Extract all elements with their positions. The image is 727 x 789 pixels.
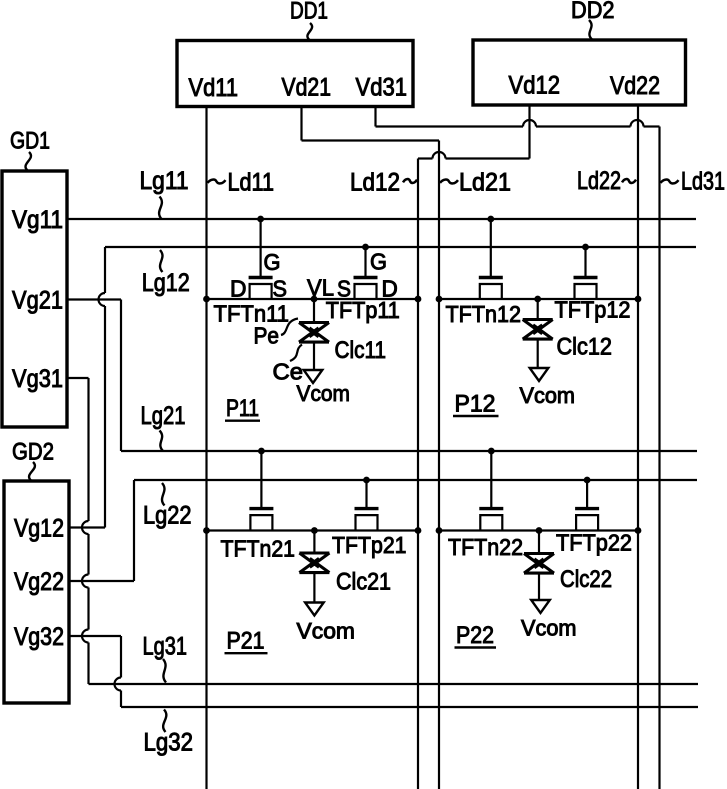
svg-text:Vg22: Vg22 (14, 568, 64, 596)
svg-text:Clc22: Clc22 (560, 566, 612, 593)
svg-text:Ld11: Ld11 (228, 169, 275, 197)
svg-text:Vd12: Vd12 (509, 72, 561, 100)
svg-text:P12: P12 (455, 391, 496, 418)
svg-text:Lg32: Lg32 (144, 729, 194, 757)
svg-text:Lg31: Lg31 (143, 633, 188, 661)
svg-text:Vcom: Vcom (520, 383, 576, 408)
svg-text:TFTp22: TFTp22 (556, 530, 632, 556)
svg-text:P22: P22 (456, 622, 494, 649)
svg-text:G: G (370, 249, 387, 275)
svg-text:Vg31: Vg31 (12, 365, 63, 393)
svg-text:TFTn11: TFTn11 (214, 300, 290, 326)
svg-text:GD1: GD1 (10, 128, 50, 155)
svg-text:TFTn21: TFTn21 (221, 536, 296, 562)
svg-text:DD2: DD2 (571, 0, 615, 24)
svg-text:TFTn12: TFTn12 (446, 301, 522, 327)
svg-text:Clc11: Clc11 (335, 337, 387, 364)
svg-text:Lg11: Lg11 (140, 167, 189, 195)
svg-text:Vd31: Vd31 (356, 74, 408, 102)
svg-text:TFTp21: TFTp21 (332, 532, 407, 558)
svg-text:TFTp12: TFTp12 (555, 297, 631, 323)
svg-text:Pe: Pe (254, 323, 280, 349)
svg-text:D: D (230, 276, 247, 302)
svg-text:Clc12: Clc12 (557, 334, 613, 361)
svg-text:Vg32: Vg32 (14, 623, 64, 651)
svg-text:Vcom: Vcom (297, 381, 351, 406)
svg-text:DD1: DD1 (290, 0, 328, 25)
svg-text:GD2: GD2 (12, 439, 54, 466)
svg-text:TFTp11: TFTp11 (326, 297, 400, 323)
svg-text:TFTn22: TFTn22 (448, 534, 523, 560)
svg-text:Ld31: Ld31 (681, 168, 725, 196)
svg-text:Vd22: Vd22 (610, 72, 660, 100)
svg-text:Ld21: Ld21 (459, 169, 511, 197)
svg-text:P11: P11 (226, 395, 259, 422)
svg-text:Vd21: Vd21 (282, 74, 332, 102)
svg-text:Vg21: Vg21 (12, 287, 63, 315)
svg-text:P21: P21 (227, 628, 265, 655)
svg-text:G: G (264, 249, 281, 275)
svg-text:Ld22: Ld22 (577, 167, 621, 195)
svg-text:Clc21: Clc21 (336, 569, 391, 596)
svg-text:Lg21: Lg21 (141, 402, 186, 430)
svg-text:Lg12: Lg12 (142, 269, 190, 297)
svg-text:Vg12: Vg12 (14, 515, 64, 543)
svg-text:Vcom: Vcom (297, 619, 356, 644)
svg-text:Vg11: Vg11 (12, 206, 63, 234)
svg-text:S: S (273, 276, 288, 302)
svg-text:Vcom: Vcom (521, 616, 577, 641)
svg-text:Ld12: Ld12 (350, 169, 400, 197)
svg-text:Lg22: Lg22 (143, 502, 192, 530)
svg-text:Vd11: Vd11 (189, 74, 239, 102)
